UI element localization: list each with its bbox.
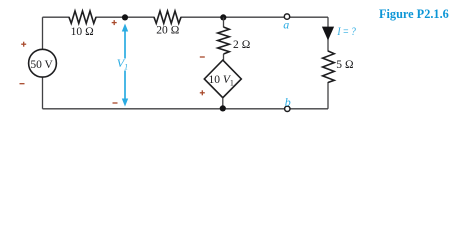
wire left lower [42,77,44,109]
wire R2 to diamond [223,54,225,60]
plus sign diamond [200,90,205,95]
svg-text:b: b [285,95,291,109]
voltage source V 50V [29,49,57,77]
minus sign diamond [200,56,205,58]
wire top right [181,16,329,18]
wire right lower [327,82,329,109]
voltage arrow V1 [122,24,128,107]
plus sign source [21,42,26,47]
dependent source 10V1 diamond [204,60,241,98]
svg-text:I = ?: I = ? [337,24,356,38]
minus sign V1 [113,102,118,104]
svg-text:5 Ω: 5 Ω [336,59,354,71]
node dot n3 [220,105,226,111]
svg-text:a: a [283,18,289,32]
plus sign V1 [112,20,117,25]
current arrow I [322,27,334,41]
resistor R 10ohm [69,11,96,23]
svg-text:V1: V1 [117,56,128,72]
wire bottom [43,108,329,110]
wire top left [43,16,70,18]
wire node2 to R2 [223,17,225,27]
svg-text:20 Ω: 20 Ω [156,25,179,37]
terminal b [285,106,290,111]
node dot n2 [220,14,226,20]
svg-text:2 Ω: 2 Ω [233,39,251,51]
wire left upper [42,17,44,49]
resistor R 20ohm [154,11,181,23]
svg-text:50 V: 50 V [30,59,53,71]
resistor R 5ohm [323,51,335,83]
svg-text:Figure P2.1.6: Figure P2.1.6 [379,7,449,21]
wire top mid [96,16,155,18]
wire diamond to bottom [222,98,224,109]
minus sign source [20,83,25,85]
resistor R 2ohm [218,27,230,54]
terminal a [284,14,289,19]
node dot n1 [122,14,128,20]
svg-text:10 Ω: 10 Ω [71,26,94,38]
wire right upper [327,17,329,51]
